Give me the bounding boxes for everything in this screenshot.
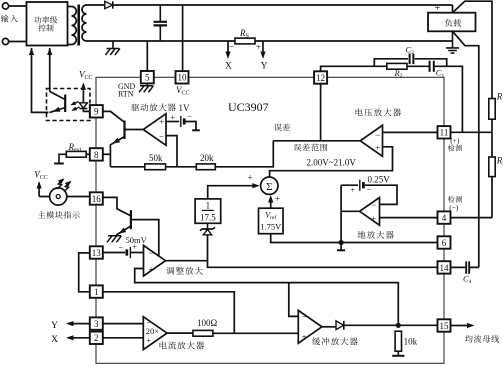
svg-text:50k: 50k — [149, 153, 163, 163]
pin 14 external capacitor C4 — [451, 266, 479, 268]
divider resistor R1 (right edge) — [489, 99, 495, 120]
label 误差范围 — [294, 144, 328, 152]
resistor 10k to ground — [395, 331, 401, 351]
wire pin8 to emitter — [103, 153, 111, 155]
wire Vref to summer — [270, 198, 272, 208]
label 调整放大 — [167, 267, 203, 275]
svg-text:20k: 20k — [200, 153, 214, 163]
svg-text:+: + — [275, 194, 280, 204]
label 均流母线 — [465, 335, 499, 343]
svg-text:−: − — [371, 200, 376, 210]
svg-text:4: 4 — [442, 213, 447, 223]
transformer core — [77, 5, 80, 46]
svg-text:C2: C2 — [406, 45, 415, 56]
svg-text:5: 5 — [145, 73, 150, 83]
pin5 ground — [146, 83, 148, 85]
pin 5 — [141, 71, 154, 83]
wire pin9 to driver transistor — [103, 111, 125, 122]
resistor 100 ohm — [167, 332, 193, 334]
svg-text:16: 16 — [92, 194, 102, 204]
svg-text:RS: RS — [239, 28, 249, 40]
pin 11 — [438, 126, 451, 138]
node X tap arrow — [227, 41, 229, 54]
pin 13 — [90, 246, 103, 258]
label 输入 (input) — [1, 15, 18, 23]
light arrows — [72, 102, 79, 105]
wire adjust + input feedback line — [135, 269, 399, 326]
svg-text:14: 14 — [440, 263, 450, 273]
pin 8 — [90, 148, 103, 160]
svg-text:1: 1 — [94, 287, 99, 297]
input terminal circles — [2, 3, 8, 45]
wire pin 1 row — [103, 292, 234, 334]
pin 16 — [90, 192, 103, 204]
svg-text:6: 6 — [442, 238, 447, 248]
label 驱动放大器 — [131, 103, 175, 111]
wire buffer - input riser — [289, 283, 299, 317]
label 电流放大器 — [160, 341, 205, 349]
svg-text:RTN: RTN — [118, 89, 134, 98]
wire pin12 compensation row — [321, 66, 463, 132]
buffer output diode — [322, 326, 336, 328]
wire pin 11 external row — [451, 131, 492, 133]
LED light arrows — [57, 179, 63, 189]
resistor Rext — [66, 151, 86, 157]
label 缓冲放大器 — [312, 337, 358, 345]
label 误差 — [274, 124, 290, 132]
divider resistor R2 (right edge) — [489, 157, 495, 177]
transformer T1 primary — [68, 7, 72, 45]
label 地放大器 — [358, 231, 394, 239]
wire 1/17.5 box to summer — [208, 186, 257, 199]
wire Q2 base to adjust amp — [131, 220, 159, 257]
svg-text:100Ω: 100Ω — [197, 318, 218, 328]
svg-text:3: 3 — [94, 319, 99, 329]
svg-text:11: 11 — [440, 128, 449, 138]
pin 6 — [438, 236, 451, 248]
svg-text:(−): (−) — [449, 203, 459, 212]
wire pin5 to return rail — [146, 41, 148, 71]
pin 3 — [90, 317, 103, 329]
op-amp adjust amplifier 调整放大 — [144, 245, 166, 276]
svg-text:1.75V: 1.75V — [260, 222, 282, 232]
svg-text:+: + — [247, 173, 252, 183]
svg-text:−: − — [118, 242, 123, 252]
load box 负载 — [428, 13, 476, 32]
pin 15 — [438, 319, 451, 331]
wire output return rail (GND RTN) — [87, 40, 453, 42]
svg-text:R2: R2 — [496, 156, 503, 168]
svg-text:+: + — [132, 242, 137, 252]
UC3907 chip outline — [96, 77, 444, 363]
wire output top rail — [87, 4, 453, 6]
svg-text:(+): (+) — [450, 136, 460, 145]
svg-text:UC3907: UC3907 — [228, 100, 269, 114]
svg-text:9: 9 — [94, 107, 99, 117]
pin 10 — [176, 71, 189, 83]
svg-text:2.00V~21.0V: 2.00V~21.0V — [307, 157, 357, 167]
svg-text:17.5: 17.5 — [200, 212, 216, 222]
resistor 50k — [110, 166, 144, 168]
label 主模块指示 — [38, 211, 80, 219]
svg-text:VCC: VCC — [34, 170, 48, 182]
svg-text:8: 8 — [94, 150, 99, 160]
wire pin13-pin1 external loop — [79, 253, 90, 292]
wire driver output to Q1 base — [125, 129, 144, 131]
wire - input to pin 11 — [383, 131, 438, 133]
svg-text:10k: 10k — [404, 336, 418, 346]
op-amp current amplifier 电流放大器 20x — [143, 317, 167, 350]
wire load+ to divider top (over top-right corner) — [453, 1, 493, 98]
wire + input from summer — [270, 147, 393, 177]
svg-text:+: + — [256, 42, 261, 52]
svg-text:R1: R1 — [496, 92, 503, 104]
op-amp buffer amplifier 缓冲放大器 — [298, 310, 322, 343]
wire 20k to error amp output — [215, 141, 273, 167]
svg-text:1: 1 — [206, 200, 211, 210]
current sense resistor Rs — [235, 38, 255, 44]
svg-text:+: + — [159, 117, 164, 127]
wire R2 to (-) sense row — [491, 132, 493, 217]
svg-text:+: + — [371, 214, 376, 224]
svg-text:C4: C4 — [463, 274, 472, 285]
pin 14 — [438, 261, 451, 273]
wire R1 to sense node — [491, 119, 493, 132]
junction dot on pin6 row — [339, 240, 344, 245]
pin 4 — [438, 211, 451, 223]
wire adjust output to zener node — [166, 260, 208, 262]
pin 2 — [90, 332, 103, 344]
zener diode below 1/17.5 — [207, 223, 209, 229]
svg-text:−: − — [149, 248, 154, 258]
wire zener to adjust amp output row and pin 14 row — [208, 235, 438, 267]
svg-text:−: − — [302, 312, 307, 322]
output filter capacitor — [159, 5, 161, 41]
optocoupler phototransistor — [64, 95, 66, 113]
stub termination below dot — [340, 243, 342, 250]
svg-text:+: + — [170, 112, 175, 122]
wire error amp output row / pin12 tie — [273, 140, 360, 142]
svg-text:Y: Y — [51, 321, 58, 331]
pin 9 — [90, 105, 103, 117]
capacitor C2 branch — [374, 59, 446, 67]
svg-text:VCC: VCC — [176, 85, 190, 97]
indicator transistor Q2 — [103, 197, 131, 216]
indicator LED circle — [39, 196, 90, 198]
svg-text:15: 15 — [440, 321, 450, 331]
wire Vref bottom to pin 6 row — [271, 234, 438, 243]
compensation resistor R2c — [387, 63, 407, 69]
optocoupler dashed box — [47, 89, 91, 121]
svg-text:2: 2 — [94, 333, 99, 343]
ground at secondary bottom — [112, 41, 114, 48]
svg-text:+: + — [375, 143, 380, 153]
svg-text:Rext: Rext — [68, 142, 82, 154]
wire pin3 / pin2 to current amp — [103, 324, 143, 338]
wire load- down right side — [453, 31, 479, 267]
pin 1 — [90, 285, 103, 297]
svg-text:13: 13 — [92, 248, 102, 258]
svg-text:12: 12 — [316, 73, 325, 83]
driver transistor Q1 — [123, 121, 125, 140]
load ground — [452, 31, 454, 47]
rectifier diode D1 on top rail — [105, 1, 113, 8]
svg-text:Σ: Σ — [266, 181, 272, 193]
wire + input to pin 4 — [380, 217, 438, 219]
svg-text:−: − — [229, 42, 234, 52]
pin 15 output arrow 均流母线 — [451, 325, 471, 327]
pin 12 — [314, 71, 327, 83]
op-amp ground amplifier 地放大器 — [360, 198, 380, 226]
svg-text:−: − — [375, 130, 380, 140]
capacitor C1 — [430, 61, 434, 72]
output arrows Y / X — [68, 323, 90, 325]
reference box Vref 1.75V — [259, 208, 284, 234]
gain block 1/17.5 — [195, 199, 221, 223]
op-amp drive amplifier 驱动放大器 — [143, 114, 166, 146]
summer circle — [261, 177, 278, 194]
svg-text:0.25V: 0.25V — [368, 175, 391, 185]
wire input to power stage box — [9, 6, 27, 42]
svg-text:VCC: VCC — [79, 70, 93, 82]
label 检测 (-) at pin 4 — [448, 196, 462, 203]
svg-text:X: X — [225, 61, 232, 71]
svg-text:−: − — [159, 132, 164, 142]
drive arrows into power stage box — [32, 48, 49, 112]
resistor 20k — [166, 166, 197, 168]
svg-text:+: + — [302, 331, 307, 341]
Rext left termination — [59, 154, 66, 163]
svg-text:+: + — [146, 335, 151, 345]
svg-text:10: 10 — [178, 73, 188, 83]
svg-text:20×: 20× — [146, 326, 160, 336]
wire pin 4 external row — [451, 217, 492, 219]
transformer T1 secondary — [82, 5, 86, 41]
op-amp voltage amplifier 电压放大器 — [360, 125, 382, 156]
wire pin10 Vcc from top rail — [182, 5, 184, 71]
svg-text:+: + — [149, 264, 154, 274]
wire to load + — [452, 5, 454, 13]
svg-text:Y: Y — [261, 61, 268, 71]
wire driver inverting input to 50k/20k node — [166, 136, 177, 167]
node Y tap arrow — [262, 41, 264, 54]
junction dot buffer output — [396, 323, 401, 328]
power stage control box 功率级控制 — [27, 2, 68, 46]
label 电压放大器 — [356, 108, 401, 116]
svg-text:X: X — [51, 335, 58, 345]
svg-text:1V: 1V — [179, 103, 191, 113]
